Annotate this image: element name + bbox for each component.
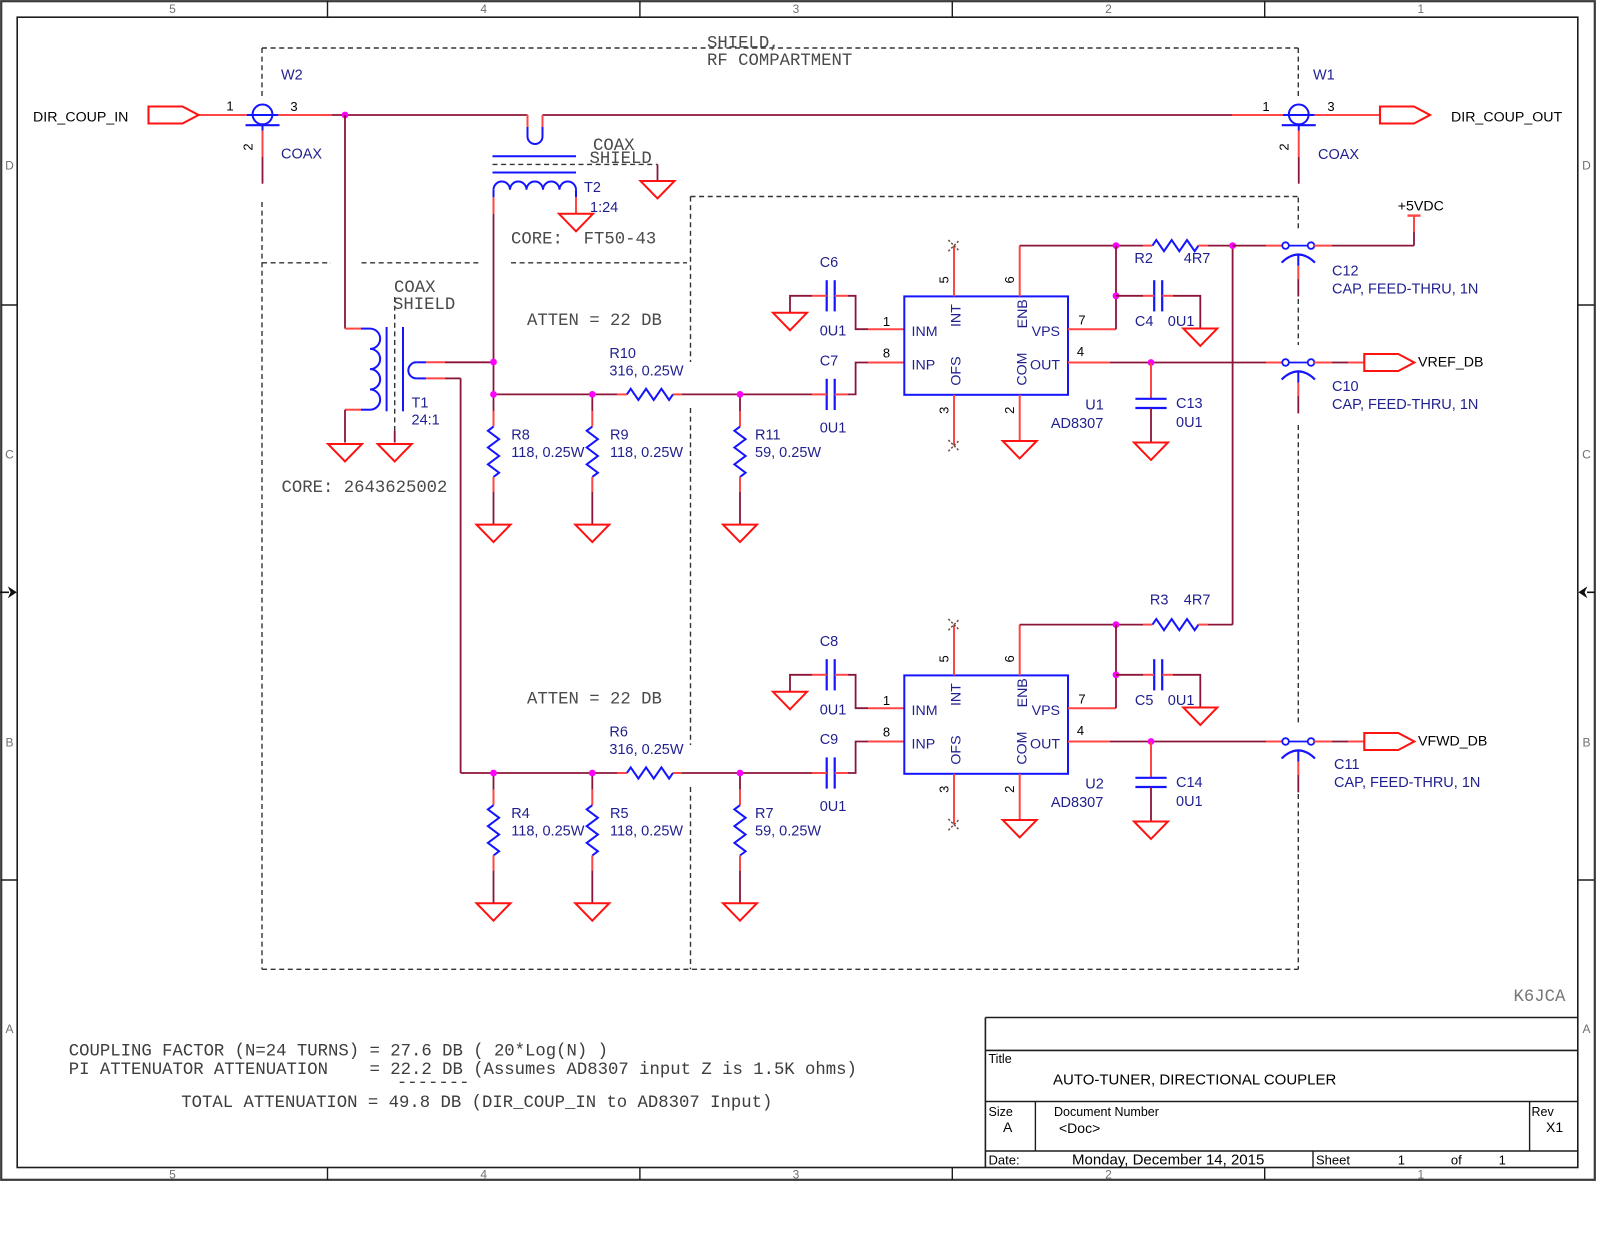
- svg-text:R4: R4: [511, 806, 530, 822]
- svg-text:0U1: 0U1: [1168, 693, 1195, 709]
- svg-text:ENB: ENB: [1015, 299, 1031, 328]
- svg-text:A: A: [1582, 1022, 1590, 1036]
- svg-text:4: 4: [480, 1168, 487, 1182]
- svg-text:C9: C9: [820, 732, 839, 748]
- svg-text:2: 2: [1105, 2, 1112, 16]
- svg-text:C10: C10: [1332, 379, 1359, 395]
- svg-text:SHIELD,: SHIELD,: [707, 34, 780, 53]
- svg-text:DIR_COUP_OUT: DIR_COUP_OUT: [1451, 110, 1562, 126]
- svg-text:X1: X1: [1546, 1119, 1563, 1135]
- svg-text:D: D: [1582, 159, 1591, 173]
- svg-text:ATTEN = 22 DB: ATTEN = 22 DB: [527, 691, 662, 710]
- svg-text:1: 1: [1262, 99, 1269, 114]
- svg-text:C6: C6: [820, 255, 839, 271]
- svg-text:6: 6: [1002, 655, 1017, 662]
- svg-text:4: 4: [1077, 344, 1084, 359]
- svg-text:OFS: OFS: [949, 356, 965, 385]
- svg-text:24:1: 24:1: [412, 413, 440, 429]
- svg-text:5: 5: [169, 1168, 176, 1182]
- svg-text:0U1: 0U1: [1168, 314, 1195, 330]
- svg-text:AUTO-TUNER, DIRECTIONAL COUPLE: AUTO-TUNER, DIRECTIONAL COUPLER: [1053, 1072, 1337, 1089]
- svg-text:INP: INP: [912, 737, 936, 753]
- svg-text:2: 2: [1002, 407, 1017, 414]
- svg-text:C4: C4: [1135, 314, 1154, 330]
- svg-text:Document Number: Document Number: [1054, 1105, 1159, 1119]
- svg-text:+5VDC: +5VDC: [1398, 199, 1444, 215]
- svg-text:INT: INT: [949, 683, 965, 706]
- svg-text:U2: U2: [1085, 777, 1104, 793]
- svg-text:SHIELD: SHIELD: [590, 150, 652, 169]
- svg-text:2: 2: [1105, 1168, 1112, 1182]
- svg-text:5: 5: [169, 2, 176, 16]
- svg-text:R9: R9: [610, 427, 629, 443]
- svg-text:3: 3: [290, 99, 297, 114]
- svg-text:C: C: [5, 447, 14, 461]
- svg-text:5: 5: [937, 276, 952, 283]
- svg-text:A: A: [5, 1022, 13, 1036]
- svg-text:ENB: ENB: [1015, 678, 1031, 707]
- svg-text:DIR_COUP_IN: DIR_COUP_IN: [33, 110, 128, 126]
- svg-text:OUT: OUT: [1030, 737, 1060, 753]
- svg-text:4: 4: [1077, 723, 1084, 738]
- svg-text:2: 2: [241, 143, 256, 150]
- svg-text:R5: R5: [610, 806, 629, 822]
- svg-text:59, 0.25W: 59, 0.25W: [755, 445, 821, 461]
- svg-text:RF COMPARTMENT: RF COMPARTMENT: [707, 52, 852, 71]
- svg-text:AD8307: AD8307: [1051, 795, 1103, 811]
- svg-text:3: 3: [937, 407, 952, 414]
- svg-text:Sheet: Sheet: [1316, 1153, 1350, 1168]
- svg-text:VREF_DB: VREF_DB: [1418, 355, 1483, 371]
- svg-text:COUPLING FACTOR (N=24 TURNS) =: COUPLING FACTOR (N=24 TURNS) = 27.6 DB (…: [69, 1043, 608, 1062]
- svg-text:INM: INM: [912, 703, 938, 719]
- svg-text:C14: C14: [1176, 775, 1203, 791]
- svg-text:C7: C7: [820, 354, 839, 370]
- svg-text:COAX: COAX: [281, 147, 322, 163]
- svg-text:VPS: VPS: [1032, 324, 1060, 340]
- svg-text:SHIELD: SHIELD: [393, 296, 455, 315]
- svg-text:118, 0.25W: 118, 0.25W: [511, 445, 584, 461]
- svg-text:2: 2: [1277, 143, 1292, 150]
- svg-text:118, 0.25W: 118, 0.25W: [610, 445, 683, 461]
- svg-text:3: 3: [937, 786, 952, 793]
- svg-text:C: C: [1582, 447, 1591, 461]
- svg-text:R8: R8: [511, 427, 530, 443]
- svg-text:W1: W1: [1313, 68, 1335, 84]
- svg-text:OUT: OUT: [1030, 358, 1060, 374]
- svg-text:1: 1: [883, 693, 890, 708]
- svg-text:COM: COM: [1014, 352, 1030, 385]
- svg-text:C12: C12: [1332, 263, 1359, 279]
- svg-text:COM: COM: [1014, 731, 1030, 764]
- svg-text:R10: R10: [609, 346, 636, 362]
- svg-text:4R7: 4R7: [1184, 593, 1211, 609]
- svg-text:R7: R7: [755, 806, 774, 822]
- svg-text:7: 7: [1078, 313, 1085, 328]
- svg-text:316, 0.25W: 316, 0.25W: [609, 742, 683, 758]
- svg-text:CAP, FEED-THRU, 1N: CAP, FEED-THRU, 1N: [1332, 397, 1478, 413]
- svg-text:0U1: 0U1: [820, 799, 847, 815]
- svg-text:CORE: FT50-43: CORE: FT50-43: [511, 231, 656, 250]
- svg-text:8: 8: [883, 345, 890, 360]
- svg-text:7: 7: [1078, 692, 1085, 707]
- svg-text:59, 0.25W: 59, 0.25W: [755, 824, 821, 840]
- svg-text:R6: R6: [609, 725, 628, 741]
- svg-text:1: 1: [883, 314, 890, 329]
- svg-text:D: D: [5, 159, 14, 173]
- svg-text:0U1: 0U1: [820, 323, 847, 339]
- svg-text:CAP, FEED-THRU, 1N: CAP, FEED-THRU, 1N: [1334, 775, 1480, 791]
- svg-text:VPS: VPS: [1032, 703, 1060, 719]
- svg-text:W2: W2: [281, 68, 303, 84]
- svg-text:5: 5: [937, 655, 952, 662]
- svg-text:3: 3: [793, 2, 800, 16]
- svg-text:AD8307: AD8307: [1051, 416, 1103, 432]
- svg-text:118, 0.25W: 118, 0.25W: [610, 824, 683, 840]
- svg-text:B: B: [5, 735, 13, 749]
- svg-text:of: of: [1451, 1153, 1462, 1168]
- svg-text:C11: C11: [1334, 757, 1360, 773]
- svg-text:A: A: [1003, 1119, 1013, 1135]
- svg-text:VFWD_DB: VFWD_DB: [1418, 734, 1487, 750]
- svg-text:Rev: Rev: [1532, 1105, 1555, 1119]
- svg-text:4: 4: [480, 2, 487, 16]
- svg-text:Monday, December 14, 2015: Monday, December 14, 2015: [1072, 1152, 1264, 1169]
- svg-text:3: 3: [793, 1168, 800, 1182]
- svg-text:1: 1: [1418, 2, 1425, 16]
- svg-text:-------: -------: [397, 1074, 470, 1093]
- svg-text:8: 8: [883, 724, 890, 739]
- svg-text:R11: R11: [755, 427, 781, 443]
- svg-text:COAX: COAX: [1318, 147, 1359, 163]
- svg-text:0U1: 0U1: [820, 702, 847, 718]
- svg-text:0U1: 0U1: [1176, 794, 1203, 810]
- svg-text:TOTAL ATTENUATION = 49.8 DB (D: TOTAL ATTENUATION = 49.8 DB (DIR_COUP_IN…: [181, 1094, 772, 1113]
- svg-text:Date:: Date:: [989, 1153, 1020, 1168]
- svg-text:OFS: OFS: [949, 735, 965, 764]
- svg-text:R2: R2: [1134, 251, 1153, 267]
- svg-text:118, 0.25W: 118, 0.25W: [511, 824, 584, 840]
- svg-text:T2: T2: [584, 180, 601, 196]
- svg-text:<Doc>: <Doc>: [1059, 1120, 1100, 1136]
- svg-text:316, 0.25W: 316, 0.25W: [609, 364, 683, 380]
- svg-text:4R7: 4R7: [1184, 251, 1211, 267]
- svg-text:CORE: 2643625002: CORE: 2643625002: [282, 479, 448, 498]
- svg-text:R3: R3: [1150, 593, 1169, 609]
- svg-text:CAP, FEED-THRU, 1N: CAP, FEED-THRU, 1N: [1332, 282, 1478, 298]
- svg-text:INP: INP: [912, 358, 936, 374]
- svg-text:K6JCA: K6JCA: [1514, 988, 1566, 1007]
- svg-text:1: 1: [1418, 1168, 1425, 1182]
- svg-text:3: 3: [1327, 99, 1334, 114]
- svg-text:1:24: 1:24: [590, 200, 618, 216]
- svg-text:0U1: 0U1: [820, 420, 847, 436]
- svg-text:T1: T1: [412, 396, 429, 412]
- svg-text:Size: Size: [989, 1105, 1013, 1119]
- svg-text:U1: U1: [1085, 398, 1104, 414]
- svg-text:INT: INT: [949, 304, 965, 327]
- svg-text:C8: C8: [820, 634, 839, 650]
- svg-text:0U1: 0U1: [1176, 415, 1203, 431]
- svg-text:2: 2: [1002, 786, 1017, 793]
- svg-text:B: B: [1582, 735, 1590, 749]
- svg-text:Title: Title: [989, 1052, 1012, 1066]
- svg-text:6: 6: [1002, 276, 1017, 283]
- svg-text:1: 1: [1499, 1153, 1506, 1168]
- svg-text:1: 1: [1398, 1153, 1405, 1168]
- svg-text:1: 1: [226, 99, 233, 114]
- svg-text:ATTEN = 22 DB: ATTEN = 22 DB: [527, 312, 662, 331]
- svg-text:C13: C13: [1176, 396, 1203, 412]
- svg-text:INM: INM: [912, 324, 938, 340]
- svg-text:C5: C5: [1135, 693, 1154, 709]
